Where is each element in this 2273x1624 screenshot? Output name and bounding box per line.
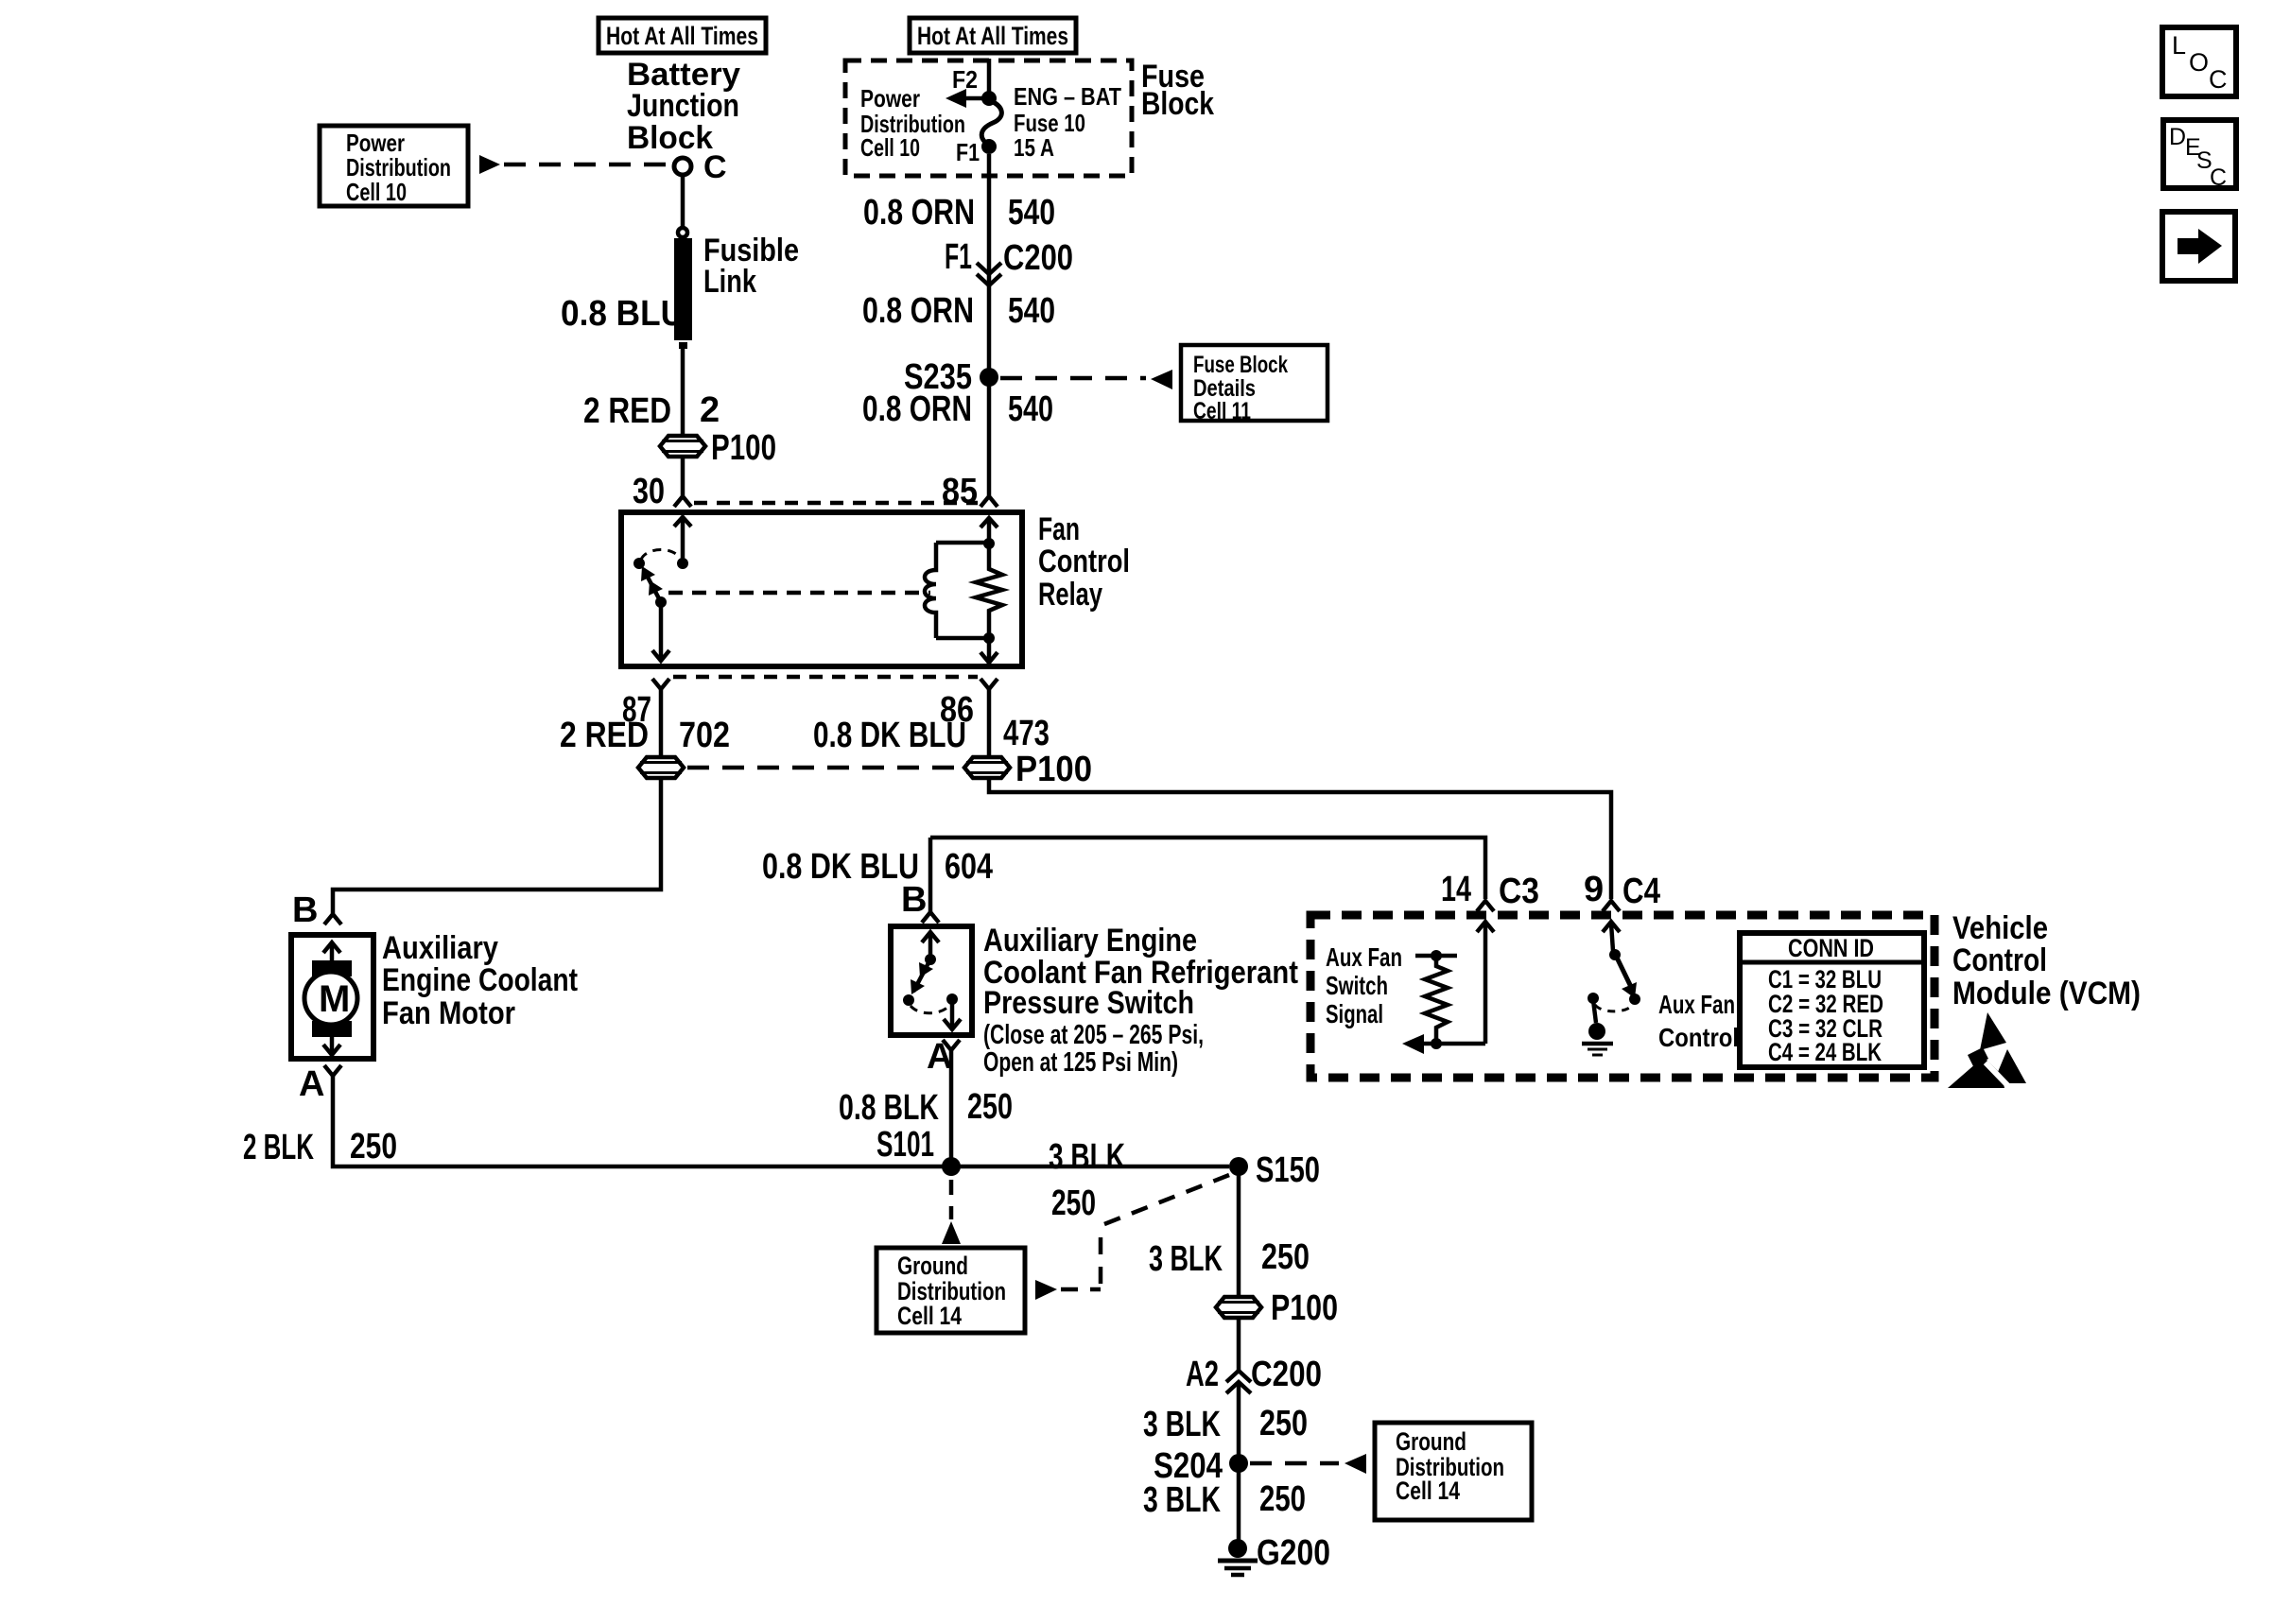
connector P100 (ground branch) <box>1216 1297 1261 1318</box>
VCM dashed box <box>1310 915 1935 1078</box>
wire: S204 to G200 <box>1237 1463 1241 1541</box>
svg-text:Hot At All Times: Hot At All Times <box>606 22 758 50</box>
pressure switch left contact dot <box>903 994 914 1006</box>
svg-text:Signal: Signal <box>1326 999 1383 1028</box>
wire: P100 to C200 <box>1237 1318 1241 1371</box>
svg-text:473: 473 <box>1003 714 1050 753</box>
svg-text:B: B <box>292 890 318 930</box>
dashed reference line from S235 <box>1000 376 1146 381</box>
connector chevron C4 <box>1603 901 1620 911</box>
svg-text:Control: Control <box>1952 942 2047 978</box>
dashed reference: S101 to Ground Distribution <box>942 1180 961 1244</box>
connector chevron motor pin B <box>324 914 341 924</box>
relay pin 86 internal arrow <box>980 638 998 665</box>
svg-text:C: C <box>2209 65 2228 94</box>
svg-text:S101: S101 <box>876 1125 934 1165</box>
svg-text:Switch: Switch <box>1326 971 1388 1000</box>
wire: fusible link to P100 <box>681 349 685 436</box>
svg-text:(Close at 205 – 265 Psi,: (Close at 205 – 265 Psi, <box>983 1020 1204 1050</box>
svg-text:Block: Block <box>1141 86 1214 122</box>
component label: Auxiliary Engine Coolant Fan Refrigerant Pressure Switch <box>983 923 1298 1078</box>
svg-text:C: C <box>2210 164 2227 191</box>
svg-text:P100: P100 <box>1015 750 1092 789</box>
svg-text:C4 = 24 BLK: C4 = 24 BLK <box>1768 1038 1882 1066</box>
VCM driver left contact dot <box>1588 993 1599 1004</box>
svg-text:Relay: Relay <box>1038 577 1102 613</box>
pressure switch blade with arrowheads <box>911 959 933 994</box>
svg-text:P100: P100 <box>711 428 776 468</box>
svg-text:Auxiliary Engine: Auxiliary Engine <box>983 923 1197 959</box>
wire: C200 to S204 <box>1237 1382 1241 1463</box>
pressure switch right contact dot <box>946 993 958 1005</box>
component label: Auxiliary Engine Coolant Fan Motor <box>382 930 578 1031</box>
svg-text:C3: C3 <box>1499 872 1539 911</box>
dashed connector line above relay <box>694 501 978 506</box>
svg-text:Vehicle: Vehicle <box>1952 910 2048 946</box>
splice S204 dot <box>1229 1454 1248 1473</box>
svg-text:A: A <box>299 1064 324 1104</box>
svg-text:702: 702 <box>679 716 730 755</box>
svg-text:Cell 11: Cell 11 <box>1193 398 1251 424</box>
svg-text:F1: F1 <box>956 138 980 166</box>
svg-text:Hot At All Times: Hot At All Times <box>917 22 1068 50</box>
svg-text:Pressure Switch: Pressure Switch <box>983 985 1194 1021</box>
wire: motor A to ground bus <box>333 1076 1229 1166</box>
VCM C3 internal arrow and wire <box>1477 922 1494 1044</box>
svg-text:ENG – BAT: ENG – BAT <box>1014 82 1121 111</box>
VCM signal line to logic with arrow <box>1402 1034 1485 1054</box>
VCM pull-up resistor top dot <box>1431 950 1442 961</box>
VCM driver switch pivot dot <box>1609 949 1621 960</box>
splice S235 dot <box>980 368 998 387</box>
component label: Fusible Link <box>703 233 799 300</box>
svg-text:0.8 BLK: 0.8 BLK <box>839 1088 939 1128</box>
label box: Hot At All Times (right) <box>910 18 1076 53</box>
motor circle M <box>304 972 357 1025</box>
fuse block dashed box <box>845 60 1132 176</box>
motor box <box>291 935 373 1059</box>
svg-text:F2: F2 <box>952 65 978 94</box>
svg-text:604: 604 <box>945 847 993 887</box>
fuse element ENG-BAT Fuse 10 <box>981 100 1001 145</box>
svg-text:250: 250 <box>1259 1404 1308 1443</box>
label box: Hot At All Times (left) <box>599 18 766 53</box>
svg-text:Fan: Fan <box>1038 511 1080 547</box>
icon box LOC <box>2162 27 2236 96</box>
connector C200 double chevron F1 <box>977 263 1001 285</box>
fusible link body <box>674 238 692 340</box>
pressure switch internal arrow up <box>922 932 939 957</box>
svg-text:Block: Block <box>627 120 713 156</box>
svg-text:Aux Fan: Aux Fan <box>1658 990 1735 1019</box>
svg-text:S150: S150 <box>1256 1150 1320 1190</box>
svg-text:Aux Fan: Aux Fan <box>1326 942 1402 972</box>
svg-text:B: B <box>901 880 927 920</box>
fuse text: ENG-BAT Fuse 10 15 A <box>1014 82 1121 162</box>
reference box: Fuse Block Details Cell 11 <box>1181 345 1327 424</box>
svg-text:9: 9 <box>1584 870 1604 909</box>
motor internal arrow up <box>323 942 340 962</box>
node F2 junction dot <box>981 91 997 106</box>
reference arrow right of Power Distribution box <box>479 155 500 174</box>
connector chevron switch pin A <box>943 1040 960 1050</box>
reference box: Ground Distribution Cell 14 (left) <box>876 1248 1025 1333</box>
svg-text:G200: G200 <box>1257 1533 1330 1573</box>
connector C200 double chevron A2 <box>1226 1371 1251 1393</box>
svg-text:Module (VCM): Module (VCM) <box>1952 976 2141 1011</box>
pressure switch dashed arc <box>911 1005 950 1013</box>
VCM pull-up resistor bottom dot <box>1431 1038 1442 1049</box>
relay switch alternate-position dashed arc <box>641 550 681 561</box>
connector chevron pin 87 <box>652 679 669 689</box>
connector chevron motor pin A <box>324 1065 341 1076</box>
icon box DESC <box>2163 120 2236 191</box>
motor brush top <box>312 960 352 976</box>
relay coil shunt resistor <box>976 545 1002 635</box>
svg-text:15 A: 15 A <box>1014 133 1054 162</box>
arrow to Power Distribution (F2 feed) <box>965 96 989 101</box>
relay pin 87 internal arrow <box>652 602 669 661</box>
splice S101 dot <box>942 1157 961 1176</box>
svg-text:P100: P100 <box>1271 1288 1338 1328</box>
connector P100 (pin 86 branch) <box>964 757 1010 778</box>
fuse bottom junction dot F1 <box>981 139 997 154</box>
svg-text:0.8 DK BLU: 0.8 DK BLU <box>813 716 966 755</box>
wire: P100 down and right to VCM C4 <box>989 778 1611 899</box>
icon box arrow <box>2162 212 2235 281</box>
svg-text:2 RED: 2 RED <box>560 716 649 755</box>
relay pin 85 internal arrow <box>980 518 998 543</box>
svg-text:Cell 14: Cell 14 <box>1396 1477 1460 1505</box>
VCM internal label: Aux Fan Control <box>1658 990 1739 1052</box>
reference box: Ground Distribution Cell 14 (right) <box>1375 1423 1532 1520</box>
wire: C200 to S235 <box>987 285 992 377</box>
svg-text:3 BLK: 3 BLK <box>1143 1405 1221 1444</box>
relay contact pivot dot <box>633 558 645 569</box>
wire: pin 87 to P100 <box>659 689 664 757</box>
connector P100 (pin 87 branch) <box>638 757 684 778</box>
wire: into fuse block top <box>987 59 992 98</box>
svg-text:L: L <box>2172 31 2186 60</box>
svg-text:C4: C4 <box>1622 872 1660 911</box>
VCM pull-up resistor zigzag <box>1425 956 1448 1040</box>
svg-text:250: 250 <box>350 1127 397 1166</box>
VCM internal ground symbol <box>1582 1000 1613 1055</box>
svg-text:2 BLK: 2 BLK <box>243 1128 314 1167</box>
VCM driver right contact dot <box>1629 993 1640 1005</box>
svg-text:Fan Motor: Fan Motor <box>382 995 515 1031</box>
svg-text:30: 30 <box>633 472 665 511</box>
connector chevron pin 85 <box>980 496 998 507</box>
svg-text:540: 540 <box>1008 193 1055 233</box>
wire: P100 to relay pin 30 <box>681 457 685 495</box>
reference box: Power Distribution Cell 10 <box>320 126 468 206</box>
svg-text:Ground: Ground <box>1396 1427 1466 1456</box>
svg-text:14: 14 <box>1441 870 1471 909</box>
relay pin 30 internal arrow <box>674 517 691 560</box>
svg-text:0.8 ORN: 0.8 ORN <box>862 291 974 331</box>
wire: pressure switch corner to VCM C3 <box>930 838 1485 899</box>
fusible link top circle <box>678 228 687 237</box>
dashed reference line from S204 <box>1250 1461 1339 1466</box>
motor internal arrow down <box>323 1035 340 1055</box>
wire: corner to pressure switch B <box>928 838 933 912</box>
svg-text:Cell 10: Cell 10 <box>860 133 920 162</box>
wire: switch A to S101 <box>949 1050 954 1166</box>
connector chevron switch pin B <box>922 912 939 923</box>
dashed reference line to S150 <box>1061 1175 1229 1289</box>
svg-text:Ground: Ground <box>897 1252 968 1280</box>
svg-text:D: D <box>2169 124 2186 150</box>
wire: P100 down and left to motor <box>333 778 661 913</box>
wire: terminal C to fusible link <box>681 176 685 228</box>
relay coil junction dots <box>983 538 995 549</box>
svg-text:Cell 14: Cell 14 <box>897 1302 962 1330</box>
wire: S150 to P100 <box>1237 1166 1241 1297</box>
component label: Fuse Block <box>1141 59 1214 122</box>
svg-text:O: O <box>2189 48 2209 77</box>
fusible link bottom tick <box>679 342 687 349</box>
svg-text:250: 250 <box>1051 1183 1096 1223</box>
svg-text:85: 85 <box>942 472 978 511</box>
svg-text:250: 250 <box>1261 1237 1310 1277</box>
dashed reference line to terminal C <box>504 163 672 167</box>
svg-text:A: A <box>927 1037 952 1077</box>
svg-text:0.8 BLU: 0.8 BLU <box>561 294 685 334</box>
VCM internal label: Aux Fan Switch Signal <box>1326 942 1402 1028</box>
component label: Fan Control Relay <box>1038 511 1130 613</box>
connector P100 (left branch) <box>660 436 705 457</box>
ground G200 symbol <box>1218 1539 1258 1575</box>
svg-text:250: 250 <box>1259 1479 1306 1519</box>
svg-text:3 BLK: 3 BLK <box>1143 1480 1221 1520</box>
relay switch common dot <box>655 596 667 608</box>
relay coil <box>925 543 989 638</box>
svg-text:0.8 DK BLU: 0.8 DK BLU <box>762 847 919 887</box>
svg-text:540: 540 <box>1008 389 1053 429</box>
svg-text:Auxiliary: Auxiliary <box>382 930 498 966</box>
wire: fuse block to C200 <box>987 154 992 285</box>
svg-text:A2: A2 <box>1186 1355 1219 1394</box>
fuse box inner text: Power Distribution Cell 10 <box>860 84 965 162</box>
svg-text:Control: Control <box>1038 544 1130 579</box>
svg-text:0.8 ORN: 0.8 ORN <box>862 389 972 429</box>
svg-text:Power: Power <box>860 84 920 112</box>
component label: Battery Junction Block <box>627 57 740 156</box>
svg-text:F1: F1 <box>945 237 972 277</box>
connector chevron pin 30 <box>674 496 691 507</box>
svg-text:Link: Link <box>703 264 756 300</box>
svg-text:2: 2 <box>700 390 720 430</box>
reference arrow (points left) <box>1345 1454 1366 1474</box>
reference arrow (points left) <box>1151 370 1172 389</box>
svg-text:Control: Control <box>1658 1023 1739 1052</box>
dashed connector line below relay <box>673 675 978 680</box>
CONN ID table <box>1740 933 1924 1067</box>
pressure switch box <box>891 926 972 1035</box>
connector chevron C3 <box>1477 901 1494 911</box>
svg-text:Open at 125 Psi Min): Open at 125 Psi Min) <box>983 1047 1178 1078</box>
svg-text:C: C <box>703 149 727 185</box>
VCM driver dashed arc <box>1595 1005 1632 1011</box>
pressure switch pin A internal arrow <box>944 999 961 1029</box>
svg-text:Junction: Junction <box>627 88 739 124</box>
svg-text:C200: C200 <box>1251 1355 1322 1394</box>
svg-text:3 BLK: 3 BLK <box>1149 1239 1223 1279</box>
component label: Vehicle Control Module (VCM) <box>1952 910 2141 1011</box>
splice S150 dot <box>1229 1157 1248 1176</box>
svg-text:3 BLK: 3 BLK <box>1049 1137 1125 1177</box>
relay mechanical link dashed line <box>668 591 930 596</box>
svg-text:Fuse Block: Fuse Block <box>1193 352 1288 378</box>
svg-text:Cell 10: Cell 10 <box>346 178 407 206</box>
relay box: Fan Control Relay <box>621 512 1022 666</box>
VCM driver switch blade with arrowhead <box>1617 958 1637 998</box>
svg-text:2 RED: 2 RED <box>583 391 671 431</box>
pressure switch pivot dot <box>925 954 936 965</box>
svg-text:0.8 ORN: 0.8 ORN <box>863 193 975 233</box>
ESD sensitive symbol <box>1948 1012 2026 1088</box>
terminal C open circle <box>674 158 691 175</box>
svg-text:Engine Coolant: Engine Coolant <box>382 962 578 998</box>
wire: S235 to relay pin 85 <box>987 377 992 495</box>
svg-text:CONN ID: CONN ID <box>1788 934 1874 962</box>
svg-text:540: 540 <box>1008 291 1055 331</box>
svg-text:250: 250 <box>967 1087 1013 1127</box>
svg-text:C200: C200 <box>1003 238 1073 278</box>
svg-text:M: M <box>319 978 350 1020</box>
connector chevron pin 86 <box>980 679 998 689</box>
VCM C4 internal arrow and wire <box>1603 922 1620 951</box>
reference arrow right of Ground Distribution box <box>1035 1280 1057 1300</box>
motor brush bottom <box>312 1021 352 1037</box>
relay contact dot (pin 30) <box>677 558 688 569</box>
VCM pull-up resistor top tick <box>1415 954 1457 959</box>
wire: pin 86 to P100 <box>987 689 992 757</box>
dashed line between P100 halves <box>687 766 961 770</box>
relay switch blade with arrowheads <box>641 566 663 602</box>
